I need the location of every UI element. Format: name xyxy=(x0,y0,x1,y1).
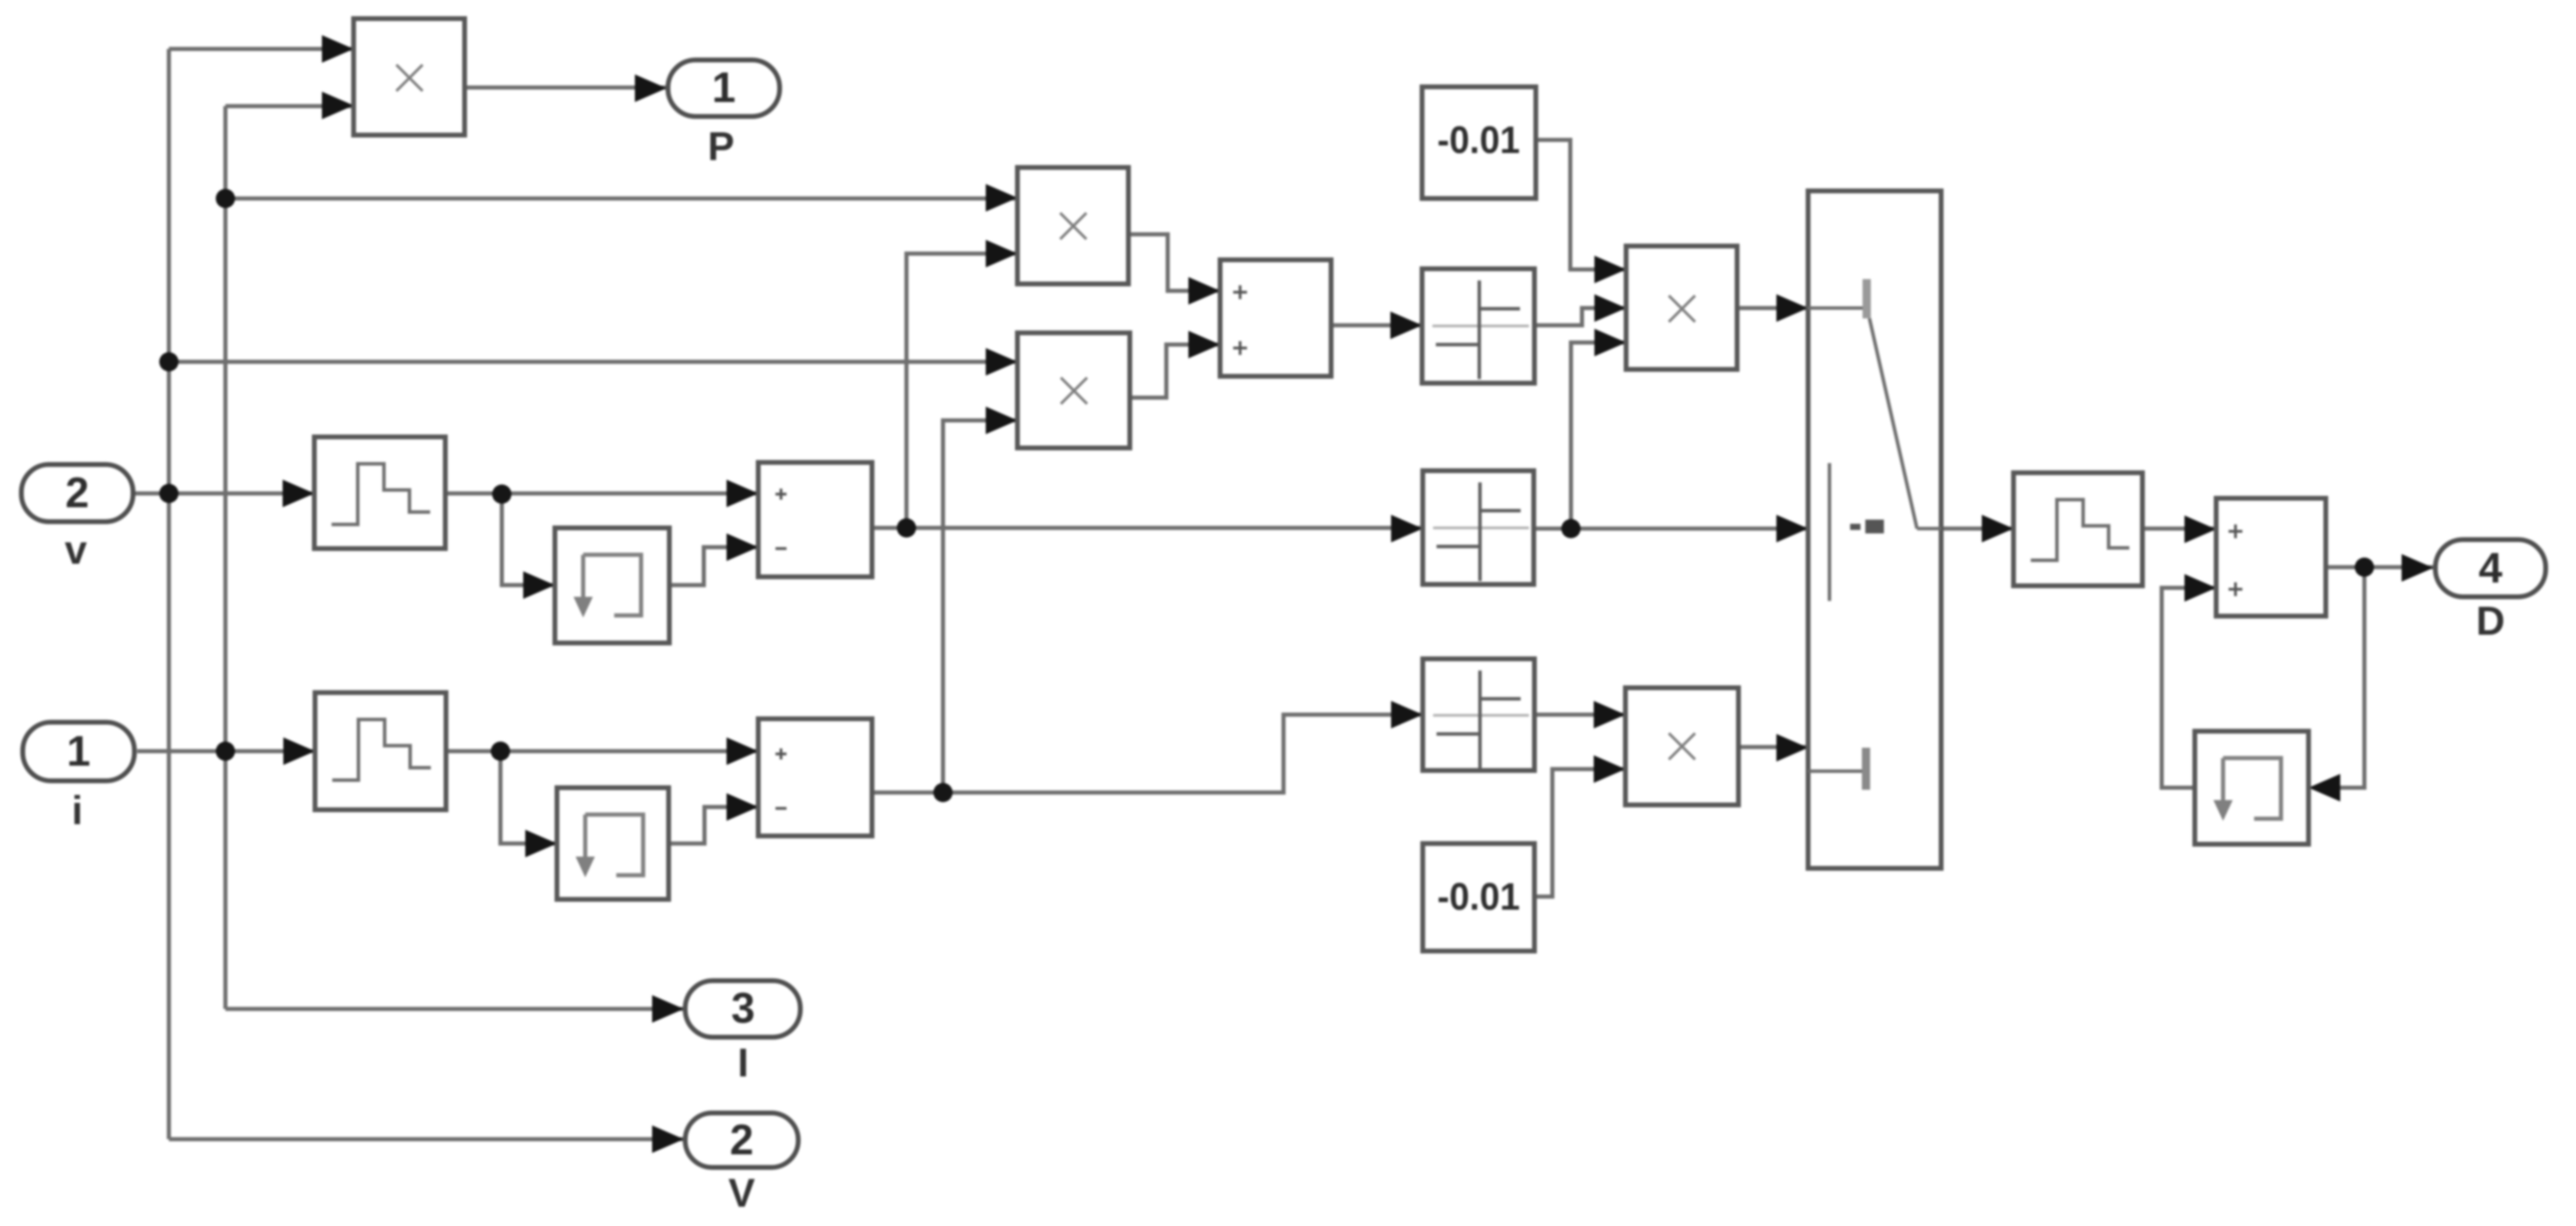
svg-text:1: 1 xyxy=(712,64,736,112)
svg-text:-0.01: -0.01 xyxy=(1437,118,1520,161)
svg-text:2: 2 xyxy=(730,1116,753,1164)
svg-text:I: I xyxy=(738,1041,749,1085)
svg-text:D: D xyxy=(2476,599,2505,644)
svg-text:4: 4 xyxy=(2479,544,2503,592)
svg-text:i: i xyxy=(72,788,83,833)
svg-text:3: 3 xyxy=(731,985,755,1032)
svg-text:V: V xyxy=(729,1171,755,1216)
svg-text:1: 1 xyxy=(67,728,90,775)
svg-text:-0.01: -0.01 xyxy=(1437,875,1520,918)
svg-text:v: v xyxy=(65,528,87,573)
svg-text:P: P xyxy=(708,124,735,169)
svg-text:2: 2 xyxy=(65,469,89,517)
